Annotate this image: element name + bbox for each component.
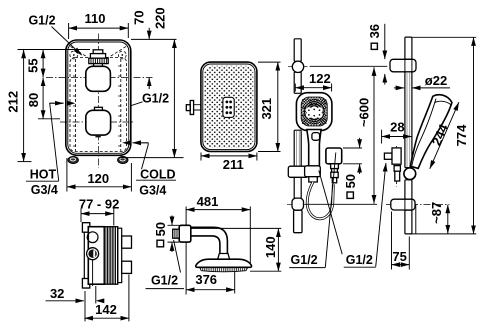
svg-text:28: 28 <box>390 120 404 135</box>
dim 321 <box>258 62 281 151</box>
hidden pipe cold <box>118 59 123 151</box>
collar nut <box>218 254 230 260</box>
svg-text:G1/2: G1/2 <box>291 253 318 267</box>
center logo plate <box>223 97 234 117</box>
bottom slider bracket <box>391 199 415 210</box>
top wall bracket <box>390 59 416 72</box>
mounting hole left <box>70 51 78 59</box>
label G1/2 hose outlet <box>289 153 336 268</box>
elbow centerline <box>396 146 398 187</box>
dim 77-92 <box>79 196 119 225</box>
svg-text:50: 50 <box>153 222 168 236</box>
dim o22 <box>394 73 450 88</box>
svg-text:75: 75 <box>392 249 406 264</box>
wall elbow plate <box>326 148 342 164</box>
dim 244 <box>429 102 459 169</box>
nozzle dot field <box>205 66 254 148</box>
plate tab top <box>82 223 89 233</box>
elbow stem <box>331 164 339 183</box>
plate tab bottom <box>82 279 89 289</box>
label G1/2 side outlet <box>131 92 169 106</box>
dashed diagonal left <box>71 47 89 58</box>
svg-text:32: 32 <box>50 286 64 301</box>
dim 120 <box>67 158 131 192</box>
hose <box>307 182 333 219</box>
top G1/2 fitting <box>89 50 108 67</box>
dim 774 <box>410 37 476 234</box>
foot cold (G3/4 inlet right) <box>118 157 128 164</box>
hand shower head <box>296 93 332 131</box>
svg-text:G1/2: G1/2 <box>28 13 55 27</box>
side swivel fitting <box>186 101 201 115</box>
dim 142 <box>84 275 128 322</box>
dim 70 <box>132 10 150 89</box>
spray face <box>301 97 327 126</box>
head disc side <box>196 259 252 267</box>
label HOT <box>26 168 59 198</box>
back band <box>118 228 122 282</box>
svg-text:G3/4: G3/4 <box>31 183 58 197</box>
valve body block <box>88 227 104 285</box>
dim 140 <box>263 228 279 271</box>
wall plate <box>179 225 191 242</box>
leader COLD to inlet <box>122 140 148 169</box>
svg-text:321: 321 <box>259 98 274 120</box>
svg-text:212: 212 <box>5 91 20 113</box>
top wall bracket <box>292 61 303 72</box>
svg-text:77 - 92: 77 - 92 <box>79 196 119 211</box>
label COLD <box>136 167 176 197</box>
svg-text:142: 142 <box>95 302 117 317</box>
svg-text:G1/2: G1/2 <box>151 274 178 288</box>
knob 2 <box>86 110 111 135</box>
svg-text:120: 120 <box>87 171 109 186</box>
mode button <box>312 133 320 141</box>
wall stub G1/2 <box>173 229 180 238</box>
bottom wall bracket <box>292 198 304 210</box>
svg-text:110: 110 <box>85 11 106 26</box>
svg-text:~600: ~600 <box>357 98 372 127</box>
centerline knob1 <box>46 76 153 78</box>
svg-text:G1/2: G1/2 <box>346 253 373 267</box>
leader G1/2 to fitting <box>52 27 82 56</box>
ext line 376 right <box>234 271 236 293</box>
svg-text:122: 122 <box>309 71 331 86</box>
dim 28 <box>382 120 412 144</box>
knob 1 <box>86 66 111 91</box>
centerline vertical mixer <box>97 34 99 169</box>
dim square36 <box>367 24 385 85</box>
svg-text:376: 376 <box>195 272 217 287</box>
holder clamp <box>288 166 308 177</box>
svg-text:G3/4: G3/4 <box>139 183 166 197</box>
hand shower profile <box>410 95 452 169</box>
mixer body plate <box>66 40 131 155</box>
dim 80 <box>26 78 60 119</box>
svg-text:211: 211 <box>223 157 244 172</box>
arm inner <box>191 236 220 254</box>
dim 122 <box>295 71 331 91</box>
svg-text:COLD: COLD <box>140 167 175 181</box>
mounting hole right <box>118 51 126 59</box>
ext line 140 bottom <box>250 270 281 272</box>
dim 55 <box>18 50 91 78</box>
ext line 140 top <box>191 227 281 229</box>
svg-text:774: 774 <box>454 124 469 146</box>
svg-text:HOT: HOT <box>30 168 57 182</box>
svg-text:55: 55 <box>26 58 41 72</box>
dim 376 <box>186 272 235 290</box>
dashed diagonal right <box>109 47 127 58</box>
wall plate edge <box>84 223 88 288</box>
dim 212 <box>5 50 31 162</box>
dim square50 arm <box>153 216 179 253</box>
rail segments <box>294 39 301 62</box>
foot hot (G3/4 inlet left) <box>68 157 78 164</box>
hidden plate dashed rect <box>70 57 127 151</box>
svg-text:220: 220 <box>153 7 168 29</box>
outlet top <box>122 236 132 248</box>
svg-text:G1/2: G1/2 <box>142 92 169 106</box>
leader HOT to inlet <box>50 101 76 181</box>
svg-text:36: 36 <box>367 24 382 38</box>
svg-text:50: 50 <box>343 174 358 188</box>
dim 211 <box>201 153 257 173</box>
ext line bracket right <box>415 205 417 234</box>
port circle <box>87 232 98 243</box>
label G1/2 arm <box>146 240 185 289</box>
svg-text:481: 481 <box>197 194 219 209</box>
bottom bracket centerline <box>287 203 305 205</box>
top bracket centerline <box>288 65 310 67</box>
handle nut <box>305 166 321 177</box>
dim ~87 <box>429 202 448 234</box>
holder ring <box>404 168 416 180</box>
ext line 481/376 left <box>185 207 187 295</box>
face inner line <box>203 64 255 150</box>
knob 2 stem <box>95 107 103 110</box>
bottom bracket centerline right <box>386 204 450 206</box>
center buttons cluster <box>306 106 323 118</box>
dim 481 <box>186 194 250 209</box>
svg-text:~87: ~87 <box>429 202 444 224</box>
handle <box>307 130 321 167</box>
dim 220 <box>119 7 184 157</box>
face plate <box>201 62 257 151</box>
centerline knob2 <box>60 121 133 123</box>
dim 75 <box>392 212 410 270</box>
dim 110 <box>69 11 129 39</box>
wall elbow right <box>384 148 401 181</box>
mixer body inner line <box>68 42 129 153</box>
arm outer <box>191 227 228 253</box>
temp knob circle <box>87 248 99 286</box>
ext line 481 right <box>249 207 251 264</box>
outlet bottom <box>122 261 132 273</box>
nozzle band <box>200 267 248 272</box>
svg-text:70: 70 <box>132 10 147 24</box>
cartridge housing hatched <box>104 227 117 285</box>
dim square50 elbow <box>343 138 362 199</box>
label G1/2 shower rail supply <box>319 163 386 267</box>
hose tip <box>309 177 318 182</box>
hidden pipe hot <box>73 59 78 151</box>
dim ~600 <box>305 67 377 204</box>
svg-text:ø22: ø22 <box>425 73 447 88</box>
dim 32 <box>46 286 105 303</box>
svg-text:80: 80 <box>26 93 41 107</box>
rail segments <box>405 37 412 59</box>
svg-text:140: 140 <box>263 236 278 258</box>
